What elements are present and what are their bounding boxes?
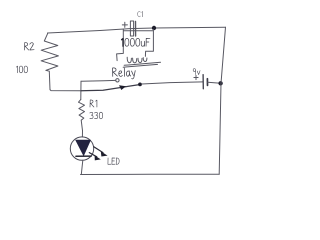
label C1 (138, 12, 143, 17)
relay switch contact dot (138, 83, 142, 87)
relay switch arm with arrowhead (81, 85, 139, 91)
wire bottom horizontal (81, 173, 220, 175)
battery B1 short plate (206, 79, 208, 86)
node junction battery / right rail (218, 81, 222, 85)
battery B1 long plate (202, 75, 204, 89)
label R2 (25, 43, 35, 50)
LED light arrow 2 (89, 153, 97, 157)
wire middle horizontal (50, 90, 81, 91)
LED D1 body circle (70, 137, 93, 160)
label 1000uF (122, 38, 150, 46)
resistor R2 (41, 33, 58, 89)
label 100 (16, 66, 27, 73)
wire top horizontal (48, 27, 226, 33)
LED light arrow 1 (94, 147, 103, 153)
relay body box (117, 29, 154, 61)
label 9V (193, 69, 200, 75)
wire LED to bottom rail (81, 160, 83, 174)
LED triangle (anode) (76, 140, 90, 155)
resistor R1 (79, 99, 85, 130)
label Relay (112, 68, 135, 79)
wire battery to right rail (208, 82, 221, 83)
wire relay contact stub (81, 79, 116, 82)
LED cathode bar (76, 155, 91, 157)
battery plus sign (194, 75, 198, 79)
relay coil scallops (127, 57, 147, 63)
label LED (108, 158, 119, 164)
relay core lines (123, 62, 160, 67)
relay switch fixed contact (open circle) (116, 79, 119, 82)
wire right vertical rail (219, 27, 225, 174)
wire switch to battery (142, 82, 203, 84)
wire relay branch vertical (80, 81, 82, 99)
wire R1 to LED (81, 131, 83, 137)
label 330 (90, 112, 103, 119)
capacitor C1 right plate (135, 22, 137, 37)
capacitor C1 left plate (130, 21, 133, 36)
capacitor plus sign (122, 22, 127, 27)
label R1 (90, 100, 97, 107)
node junction right of C1 (152, 26, 156, 30)
